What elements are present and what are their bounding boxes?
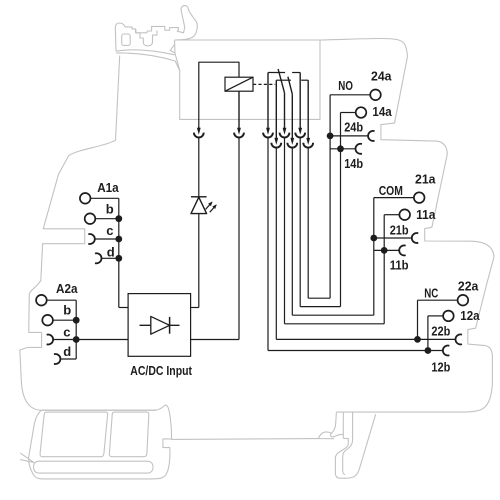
- svg-text:14a: 14a: [372, 104, 392, 119]
- svg-text:COM: COM: [379, 183, 403, 198]
- svg-text:A1a: A1a: [97, 180, 119, 195]
- svg-text:22b: 22b: [431, 323, 450, 338]
- svg-text:14b: 14b: [344, 156, 363, 171]
- svg-text:21a: 21a: [415, 172, 436, 187]
- svg-text:NC: NC: [424, 285, 438, 300]
- svg-text:d: d: [63, 344, 71, 359]
- svg-text:11b: 11b: [390, 257, 409, 272]
- svg-text:12a: 12a: [460, 308, 480, 323]
- svg-text:b: b: [63, 303, 71, 318]
- svg-text:c: c: [63, 324, 70, 339]
- svg-text:A2a: A2a: [56, 281, 78, 296]
- svg-text:21b: 21b: [390, 222, 409, 237]
- svg-text:c: c: [106, 223, 113, 238]
- svg-text:24b: 24b: [344, 119, 363, 134]
- svg-text:24a: 24a: [371, 69, 392, 84]
- svg-text:NO: NO: [338, 78, 353, 93]
- svg-text:AC/DC Input: AC/DC Input: [130, 363, 192, 378]
- svg-text:b: b: [106, 201, 114, 216]
- svg-text:d: d: [107, 244, 115, 259]
- svg-text:11a: 11a: [416, 207, 436, 222]
- svg-text:22a: 22a: [458, 278, 479, 293]
- svg-text:12b: 12b: [431, 359, 450, 374]
